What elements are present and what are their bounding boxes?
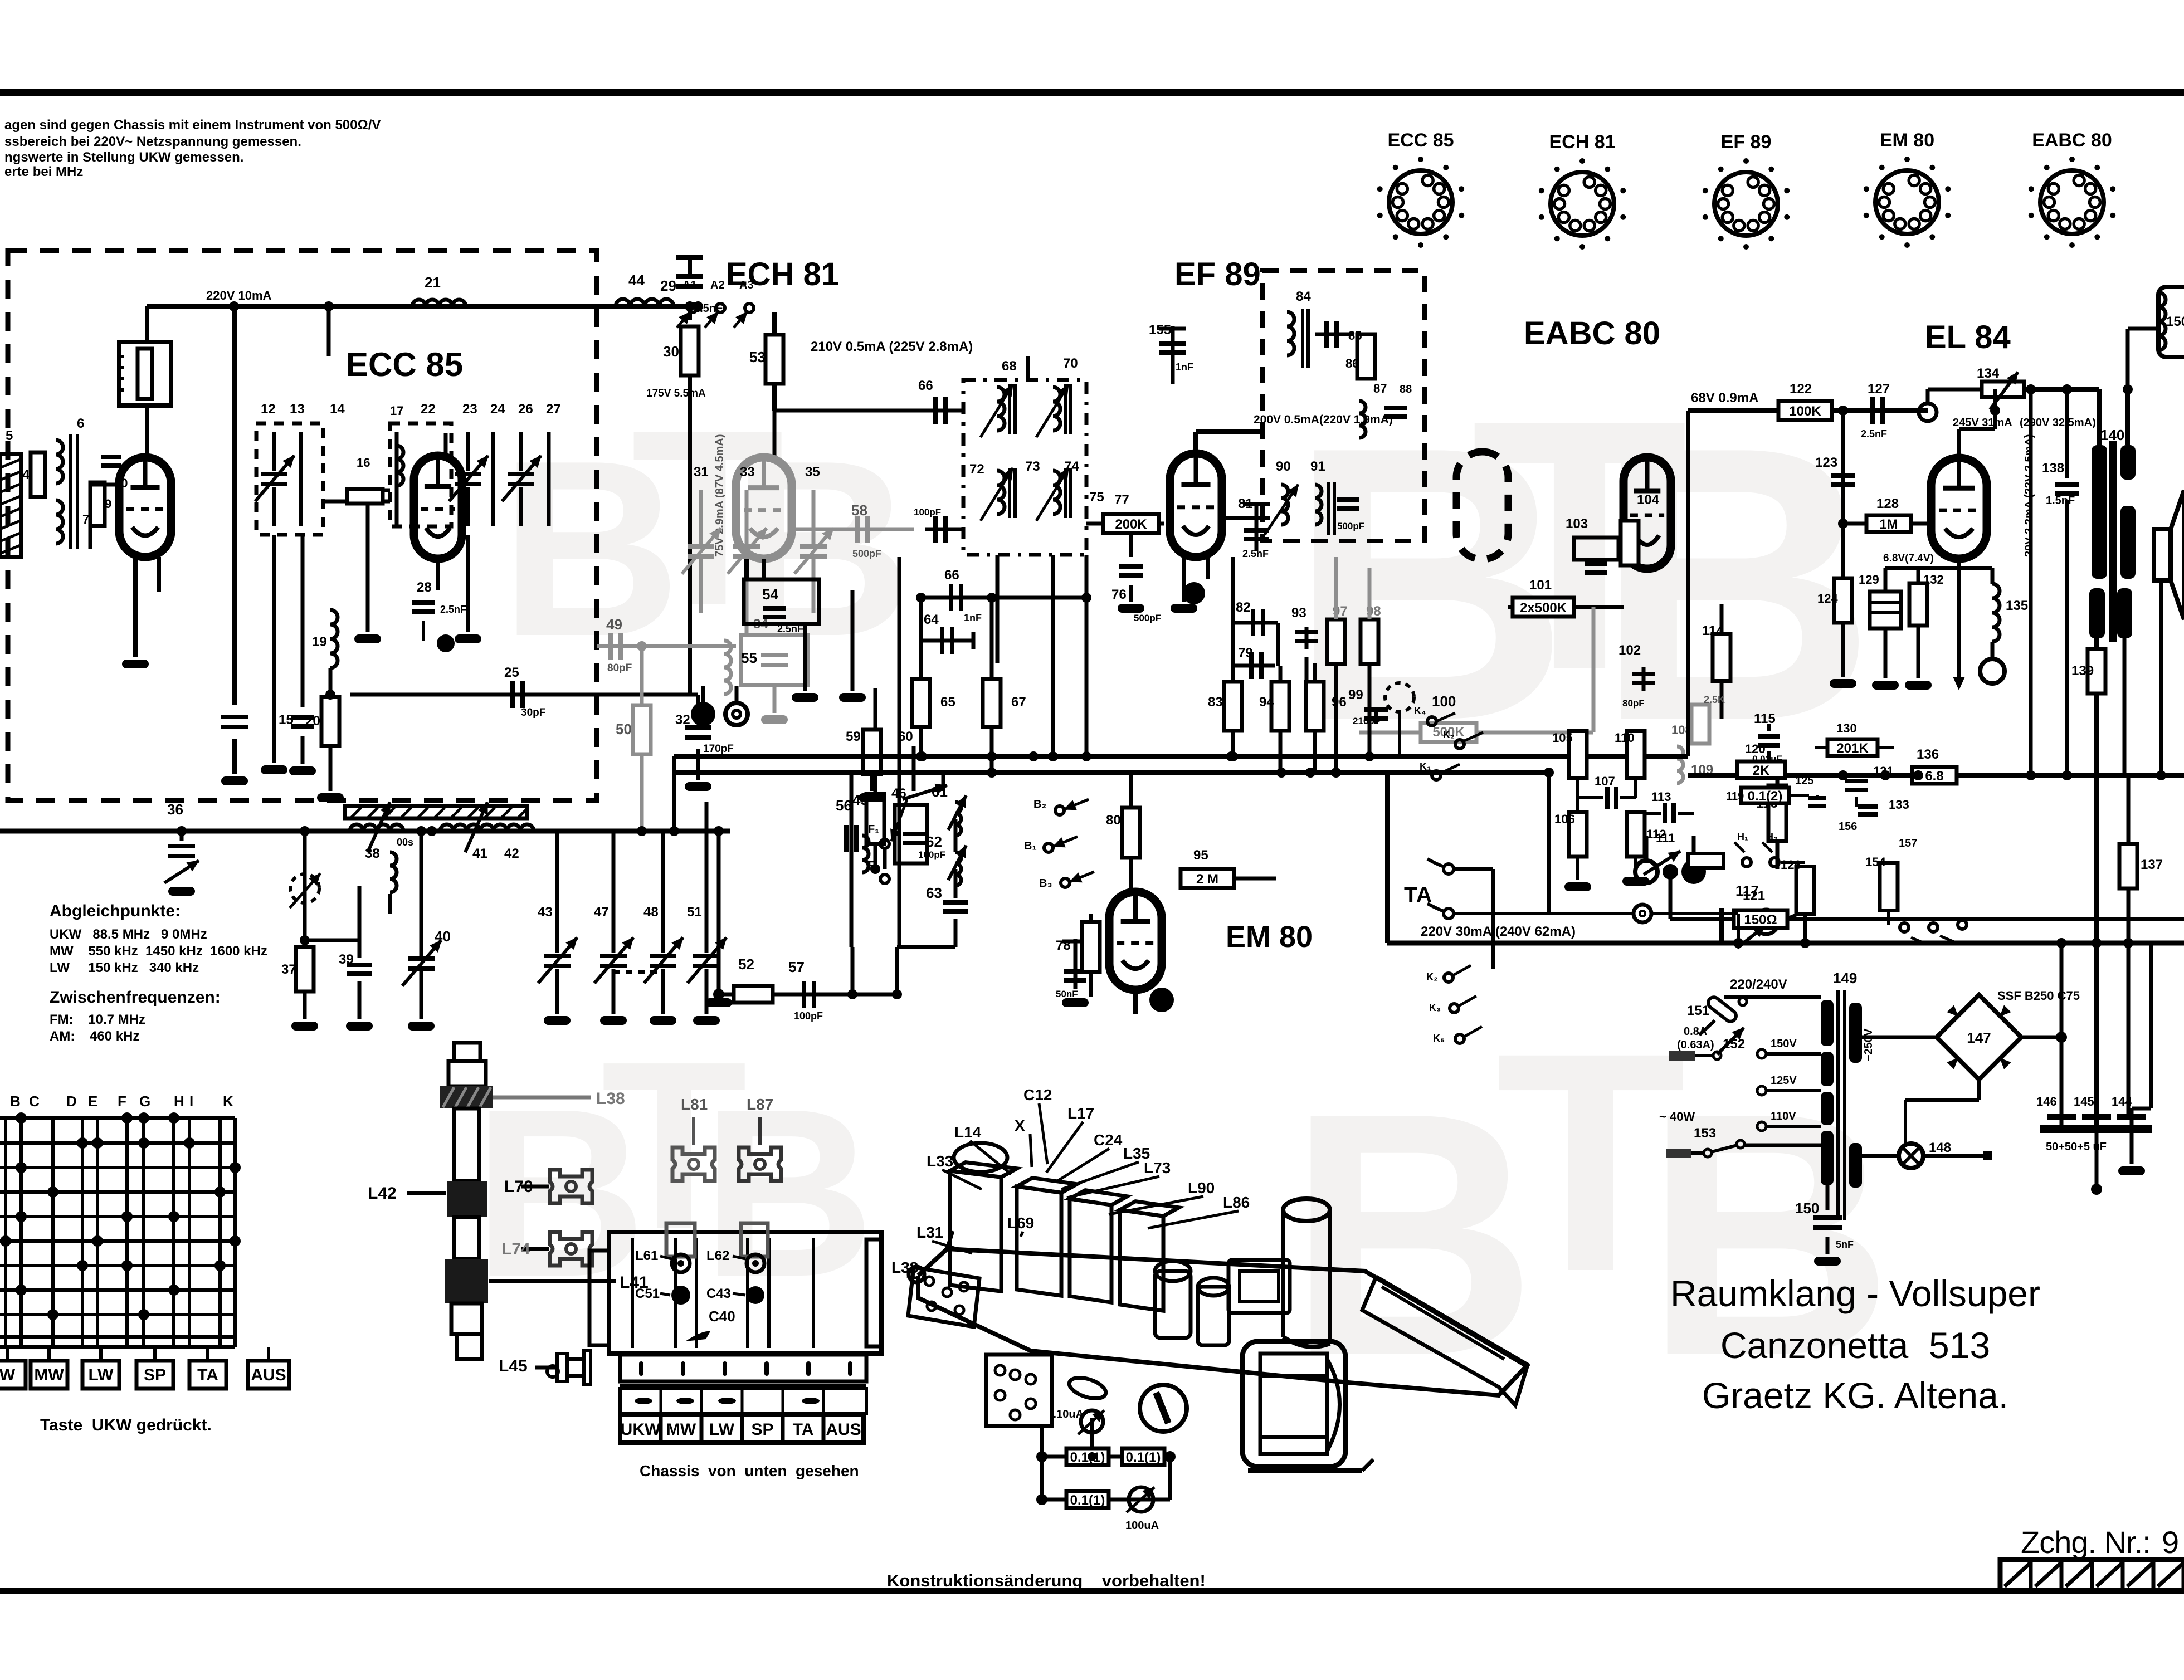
svg-text:147: 147 — [1967, 1029, 1991, 1046]
svg-text:L45: L45 — [499, 1357, 528, 1375]
svg-text:100pF: 100pF — [914, 507, 941, 517]
svg-text:20: 20 — [305, 714, 320, 729]
svg-text:LW 150 kHz 340 kHz: LW 150 kHz 340 kHz — [50, 960, 199, 975]
svg-text:75V 2.9mA (87V 4.5mA): 75V 2.9mA (87V 4.5mA) — [714, 434, 726, 557]
svg-text:93: 93 — [1291, 605, 1306, 621]
svg-text:K₃: K₃ — [1429, 1002, 1441, 1013]
svg-text:X: X — [1015, 1117, 1025, 1134]
svg-text:Graetz KG. Altena.: Graetz KG. Altena. — [1702, 1375, 2008, 1416]
svg-text:200V 0.5mA(220V 1.9mA): 200V 0.5mA(220V 1.9mA) — [1254, 413, 1393, 426]
svg-text:500pF: 500pF — [1337, 521, 1364, 531]
svg-text:A2: A2 — [710, 279, 725, 291]
svg-text:28: 28 — [417, 580, 432, 595]
svg-text:64: 64 — [924, 612, 939, 627]
svg-text:ECH 81: ECH 81 — [1549, 131, 1615, 153]
svg-text:EM 80: EM 80 — [1880, 130, 1934, 151]
svg-text:44: 44 — [628, 272, 645, 289]
svg-text:2.5nF: 2.5nF — [1242, 548, 1269, 559]
svg-text:2.5nF: 2.5nF — [777, 623, 803, 634]
svg-text:110V: 110V — [1771, 1110, 1796, 1122]
svg-text:84: 84 — [1296, 289, 1311, 304]
svg-text:145: 145 — [2074, 1095, 2094, 1108]
svg-text:SP: SP — [751, 1420, 773, 1439]
svg-text:EL 84: EL 84 — [1925, 319, 2011, 355]
svg-text:63: 63 — [926, 885, 942, 901]
svg-text:Chassis von unten gesehen: Chassis von unten gesehen — [640, 1462, 859, 1479]
svg-text:L33: L33 — [927, 1152, 953, 1170]
svg-text:86: 86 — [1345, 356, 1359, 370]
svg-text:ECC 85: ECC 85 — [346, 346, 463, 383]
svg-text:0.1(2): 0.1(2) — [1748, 789, 1783, 804]
svg-text:L73: L73 — [1144, 1159, 1171, 1176]
svg-text:220V 30mA (240V 62mA): 220V 30mA (240V 62mA) — [1421, 924, 1576, 939]
svg-text:C: C — [29, 1093, 40, 1110]
svg-text:33: 33 — [740, 465, 755, 480]
svg-text:47: 47 — [594, 905, 609, 920]
svg-text:I: I — [189, 1093, 193, 1110]
svg-text:FM: 10.7 MHz: FM: 10.7 MHz — [50, 1012, 145, 1027]
svg-text:100uA: 100uA — [1125, 1520, 1159, 1532]
svg-text:65: 65 — [940, 695, 955, 710]
svg-text:100pF: 100pF — [794, 1010, 823, 1022]
svg-text:(0.63A): (0.63A) — [1677, 1039, 1714, 1051]
svg-text:41: 41 — [472, 846, 487, 861]
svg-text:102: 102 — [1618, 643, 1641, 658]
svg-text:136: 136 — [1917, 747, 1939, 762]
svg-text:220V 10mA: 220V 10mA — [206, 289, 272, 302]
svg-text:21: 21 — [425, 274, 441, 291]
svg-text:A1: A1 — [682, 279, 697, 291]
svg-text:H₁: H₁ — [1737, 831, 1748, 842]
svg-text:L87: L87 — [747, 1096, 773, 1113]
svg-text:128: 128 — [1876, 496, 1899, 511]
svg-text:W: W — [0, 1366, 16, 1384]
svg-text:48: 48 — [643, 905, 659, 920]
svg-text:66: 66 — [918, 378, 933, 393]
svg-text:E: E — [88, 1093, 97, 1110]
svg-text:17: 17 — [390, 404, 403, 418]
svg-text:87: 87 — [1373, 382, 1387, 395]
svg-text:00s: 00s — [397, 837, 413, 848]
svg-text:500pF: 500pF — [1134, 613, 1161, 623]
svg-text:ECC 85: ECC 85 — [1387, 130, 1454, 151]
svg-text:100pF: 100pF — [918, 849, 945, 860]
svg-text:K: K — [223, 1093, 233, 1110]
svg-text:~250V: ~250V — [1863, 1028, 1875, 1061]
svg-text:67: 67 — [1011, 695, 1026, 710]
svg-text:EM 80: EM 80 — [1226, 920, 1313, 954]
svg-text:74: 74 — [1064, 459, 1079, 474]
svg-text:2x500K: 2x500K — [1520, 600, 1567, 616]
svg-text:19: 19 — [312, 634, 327, 649]
svg-text:80pF: 80pF — [1622, 698, 1645, 709]
svg-text:70: 70 — [1063, 356, 1078, 371]
svg-text:134: 134 — [1977, 366, 2000, 381]
svg-text:13: 13 — [290, 402, 305, 417]
svg-text:SSF B250 C75: SSF B250 C75 — [1997, 989, 2080, 1003]
svg-text:B₃: B₃ — [1039, 877, 1052, 890]
svg-text:59: 59 — [846, 729, 861, 744]
svg-text:83: 83 — [1208, 695, 1223, 710]
svg-text:57: 57 — [788, 959, 805, 975]
svg-text:115: 115 — [1754, 711, 1776, 726]
svg-text:130: 130 — [1836, 721, 1857, 735]
svg-text:95: 95 — [1193, 848, 1208, 863]
svg-text:C12: C12 — [1023, 1086, 1052, 1103]
svg-text:6.8V(7.4V): 6.8V(7.4V) — [1883, 553, 1934, 564]
svg-text:H₂: H₂ — [1766, 831, 1778, 842]
svg-text:150Ω: 150Ω — [1744, 912, 1777, 927]
svg-text:L74: L74 — [501, 1240, 530, 1258]
svg-text:9: 9 — [105, 497, 111, 511]
svg-text:32: 32 — [675, 712, 690, 727]
svg-text:MW: MW — [34, 1366, 64, 1384]
svg-text:L69: L69 — [1007, 1214, 1034, 1232]
svg-text:L38: L38 — [596, 1090, 625, 1108]
svg-text:90: 90 — [1276, 459, 1291, 474]
svg-text:138: 138 — [2042, 461, 2064, 476]
svg-text:K₂: K₂ — [1426, 971, 1438, 983]
svg-text:157: 157 — [1899, 837, 1917, 849]
svg-text:200K: 200K — [1115, 517, 1147, 532]
svg-text:Canzonetta 513: Canzonetta 513 — [1720, 1325, 1990, 1366]
svg-text:210V 0.5mA (225V 2.8mA): 210V 0.5mA (225V 2.8mA) — [811, 339, 973, 354]
svg-text:EF 89: EF 89 — [1721, 131, 1772, 153]
svg-text:137: 137 — [2141, 857, 2163, 872]
svg-text:Konstruktionsänderung vorbe: Konstruktionsänderung vorbehalten! — [887, 1571, 1206, 1590]
svg-text:B: B — [10, 1093, 21, 1110]
svg-text:131: 131 — [1873, 764, 1894, 778]
svg-text:150: 150 — [2166, 314, 2184, 329]
svg-text:erte bei MHz: erte bei MHz — [4, 164, 83, 179]
svg-text:12: 12 — [261, 402, 276, 417]
svg-text:123: 123 — [1815, 455, 1837, 470]
svg-text:121: 121 — [1743, 888, 1765, 904]
svg-text:AM: 460 kHz: AM: 460 kHz — [50, 1029, 139, 1044]
svg-text:149: 149 — [1833, 970, 1857, 986]
svg-text:111: 111 — [1656, 831, 1675, 845]
svg-text:F₂: F₂ — [868, 859, 880, 872]
svg-text:UKW: UKW — [621, 1420, 661, 1439]
svg-text:80pF: 80pF — [607, 662, 632, 674]
svg-text:25: 25 — [504, 665, 519, 680]
svg-text:107: 107 — [1595, 774, 1615, 788]
svg-text:C43: C43 — [706, 1286, 731, 1301]
svg-text:L86: L86 — [1223, 1194, 1250, 1211]
svg-text:ssbereich bei 220V~ Netzspannu: ssbereich bei 220V~ Netzspannung gemesse… — [4, 134, 301, 149]
svg-text:140: 140 — [2100, 427, 2124, 443]
svg-text:125: 125 — [1795, 775, 1813, 787]
svg-text:38: 38 — [365, 846, 380, 861]
svg-text:52: 52 — [738, 956, 754, 973]
svg-text:L31: L31 — [916, 1224, 943, 1241]
svg-text:76: 76 — [1111, 587, 1127, 602]
svg-text:30: 30 — [663, 343, 679, 360]
svg-text:26: 26 — [518, 402, 533, 417]
svg-text:D: D — [66, 1093, 77, 1110]
svg-text:146: 146 — [2036, 1095, 2057, 1108]
svg-text:122: 122 — [1790, 382, 1812, 397]
svg-text:C51: C51 — [635, 1286, 660, 1301]
svg-text:LW: LW — [709, 1420, 735, 1439]
svg-text:61: 61 — [932, 783, 948, 800]
svg-text:120: 120 — [1745, 742, 1766, 756]
svg-text:133: 133 — [1889, 798, 1909, 812]
svg-text:AUS: AUS — [826, 1420, 861, 1439]
svg-text:0.1(1): 0.1(1) — [1126, 1450, 1161, 1465]
svg-text:2.5K: 2.5K — [1704, 694, 1725, 705]
svg-text:68: 68 — [1002, 359, 1017, 374]
svg-text:0.1(1): 0.1(1) — [1070, 1493, 1105, 1508]
svg-text:151: 151 — [1687, 1003, 1709, 1018]
svg-text:99: 99 — [1348, 687, 1363, 702]
svg-text:36: 36 — [167, 801, 183, 818]
svg-text:L90: L90 — [1188, 1179, 1215, 1196]
svg-text:B: B — [1644, 1042, 1888, 1427]
svg-text:119: 119 — [1726, 790, 1744, 803]
svg-text:73: 73 — [1025, 459, 1040, 474]
svg-text:154: 154 — [1865, 855, 1886, 869]
svg-text:MW: MW — [666, 1420, 696, 1439]
svg-text:L38: L38 — [891, 1259, 918, 1276]
svg-text:I.10uA: I.10uA — [1050, 1408, 1084, 1420]
svg-text:1M: 1M — [1879, 517, 1898, 532]
svg-text:B₂: B₂ — [1033, 798, 1046, 810]
svg-text:139: 139 — [2071, 663, 2094, 678]
svg-text:K₄: K₄ — [1414, 705, 1426, 716]
svg-text:54: 54 — [762, 586, 778, 603]
svg-text:60: 60 — [898, 729, 913, 744]
svg-text:UKW 88.5 MHz 9 0MHz: UKW 88.5 MHz 9 0MHz — [50, 927, 207, 942]
svg-text:103: 103 — [1566, 516, 1588, 531]
svg-text:30pF: 30pF — [521, 707, 545, 719]
svg-text:100K: 100K — [1789, 404, 1821, 419]
svg-text:L17: L17 — [1067, 1105, 1094, 1122]
svg-text:96: 96 — [1332, 695, 1347, 710]
svg-text:2 M: 2 M — [1196, 872, 1218, 887]
svg-text:24: 24 — [490, 402, 505, 417]
svg-text:77: 77 — [1114, 492, 1129, 507]
svg-text:127: 127 — [1868, 382, 1890, 397]
svg-text:50: 50 — [616, 721, 632, 738]
svg-text:SP: SP — [144, 1366, 166, 1384]
svg-text:Zchg. Nr.:: Zchg. Nr.: — [2021, 1525, 2151, 1560]
svg-text:C40: C40 — [709, 1308, 735, 1325]
svg-text:EABC 80: EABC 80 — [2032, 130, 2112, 151]
svg-text:Zwischenfrequenzen:: Zwischenfrequenzen: — [50, 988, 221, 1007]
svg-text:50nF: 50nF — [1056, 989, 1078, 999]
svg-text:L70: L70 — [504, 1178, 533, 1196]
svg-text:4: 4 — [22, 467, 30, 482]
svg-text:37: 37 — [281, 962, 296, 977]
svg-text:175V 5.5mA: 175V 5.5mA — [646, 388, 706, 399]
svg-text:G: G — [139, 1093, 150, 1110]
svg-text:TA: TA — [197, 1366, 218, 1384]
svg-text:88: 88 — [1400, 383, 1412, 395]
svg-text:150: 150 — [1795, 1200, 1819, 1217]
svg-text:201K: 201K — [1836, 741, 1869, 756]
svg-text:1nF: 1nF — [1176, 362, 1193, 373]
svg-text:2.5nF: 2.5nF — [1861, 428, 1887, 439]
svg-text:210pF: 210pF — [1353, 716, 1380, 726]
svg-text:500pF: 500pF — [852, 548, 881, 559]
svg-text:K₅: K₅ — [1433, 1033, 1445, 1044]
svg-text:ngswerte in Stellung UKW geme: ngswerte in Stellung UKW gemessen. — [4, 150, 243, 165]
svg-text:LW: LW — [89, 1366, 114, 1384]
svg-text:170pF: 170pF — [703, 743, 734, 755]
svg-text:C24: C24 — [1094, 1131, 1123, 1149]
svg-text:agen sind gegen Chassis mit ei: agen sind gegen Chassis mit einem Instru… — [4, 118, 381, 133]
svg-text:62: 62 — [926, 833, 942, 850]
svg-text:27: 27 — [546, 402, 561, 417]
svg-text:106: 106 — [1554, 812, 1575, 826]
svg-text:144: 144 — [2112, 1095, 2132, 1108]
svg-text:110: 110 — [1615, 731, 1635, 745]
svg-text:L61: L61 — [635, 1248, 658, 1263]
svg-text:135: 135 — [2006, 598, 2028, 613]
svg-text:H: H — [174, 1093, 184, 1110]
svg-text:1.5nF: 1.5nF — [2046, 495, 2075, 507]
svg-text:105: 105 — [1552, 731, 1573, 745]
svg-text:49: 49 — [606, 616, 622, 633]
svg-text:55: 55 — [741, 649, 757, 666]
svg-text:42: 42 — [504, 846, 519, 861]
svg-text:85: 85 — [1348, 329, 1362, 343]
svg-text:91: 91 — [1310, 459, 1325, 474]
svg-text:150V: 150V — [1771, 1038, 1797, 1050]
svg-text:72: 72 — [969, 462, 984, 477]
svg-text:9: 9 — [2162, 1525, 2179, 1560]
svg-text:L62: L62 — [706, 1248, 729, 1263]
svg-text:14: 14 — [330, 402, 345, 417]
svg-text:152: 152 — [1723, 1037, 1745, 1052]
svg-text:5: 5 — [6, 428, 13, 443]
svg-text:39: 39 — [339, 952, 354, 967]
svg-text:153: 153 — [1694, 1126, 1716, 1141]
svg-text:75: 75 — [1089, 490, 1104, 505]
svg-text:220/240V: 220/240V — [1730, 977, 1787, 992]
svg-text:68V 0.9mA: 68V 0.9mA — [1691, 390, 1758, 406]
svg-text:82: 82 — [1236, 600, 1251, 615]
svg-text:AUS: AUS — [251, 1366, 286, 1384]
svg-text:TA: TA — [793, 1420, 814, 1439]
svg-text:F₁: F₁ — [868, 823, 880, 836]
svg-text:43: 43 — [538, 905, 553, 920]
svg-text:125V: 125V — [1771, 1075, 1797, 1087]
svg-text:124: 124 — [1817, 592, 1838, 605]
svg-text:Abgleichpunkte:: Abgleichpunkte: — [50, 902, 181, 920]
svg-text:156: 156 — [1839, 821, 1857, 833]
svg-text:F: F — [118, 1093, 126, 1110]
svg-text:80: 80 — [1106, 813, 1121, 828]
svg-text:66: 66 — [944, 568, 959, 583]
svg-text:Taste UKW gedrückt.: Taste UKW gedrückt. — [40, 1416, 212, 1434]
svg-text:51: 51 — [687, 905, 702, 920]
svg-text:22: 22 — [421, 402, 436, 417]
svg-text:L81: L81 — [681, 1096, 708, 1113]
svg-text:Raumklang - Vollsuper: Raumklang - Vollsuper — [1670, 1273, 2040, 1314]
svg-text:B₁: B₁ — [1024, 840, 1037, 852]
svg-text:126: 126 — [1781, 858, 1801, 872]
svg-text:L42: L42 — [368, 1184, 397, 1203]
svg-text:2K: 2K — [1753, 763, 1770, 778]
svg-text:7: 7 — [82, 512, 89, 526]
svg-text:29: 29 — [660, 277, 676, 294]
svg-text:~ 40W: ~ 40W — [1659, 1110, 1695, 1124]
svg-text:EF 89: EF 89 — [1174, 256, 1261, 292]
svg-text:A3: A3 — [739, 279, 754, 291]
svg-text:31: 31 — [694, 465, 709, 480]
svg-text:23: 23 — [462, 402, 477, 417]
svg-text:6: 6 — [77, 416, 84, 431]
svg-text:101: 101 — [1529, 578, 1552, 593]
svg-text:129: 129 — [1859, 573, 1879, 587]
svg-text:K₂: K₂ — [1443, 729, 1455, 740]
svg-text:0.8A: 0.8A — [1684, 1025, 1707, 1038]
svg-text:EABC 80: EABC 80 — [1524, 315, 1660, 351]
svg-text:113: 113 — [1651, 790, 1671, 804]
svg-text:94: 94 — [1259, 695, 1274, 710]
svg-text:53: 53 — [749, 349, 766, 365]
svg-text:MW 550 kHz 1450 kHz 1600: MW 550 kHz 1450 kHz 1600 kHz — [50, 944, 267, 959]
svg-text:16: 16 — [357, 456, 370, 470]
svg-text:100: 100 — [1432, 693, 1456, 710]
svg-text:2.5nF: 2.5nF — [440, 604, 466, 615]
svg-text:148: 148 — [1929, 1140, 1951, 1155]
svg-text:35: 35 — [805, 465, 820, 480]
svg-text:6.8: 6.8 — [1925, 769, 1943, 784]
svg-text:L14: L14 — [954, 1124, 982, 1141]
svg-text:40: 40 — [435, 928, 451, 945]
svg-text:15: 15 — [279, 712, 294, 727]
svg-text:104: 104 — [1637, 492, 1660, 507]
svg-text:0.1(1): 0.1(1) — [1070, 1450, 1105, 1465]
svg-text:1nF: 1nF — [964, 612, 982, 623]
svg-text:5nF: 5nF — [1836, 1239, 1854, 1250]
